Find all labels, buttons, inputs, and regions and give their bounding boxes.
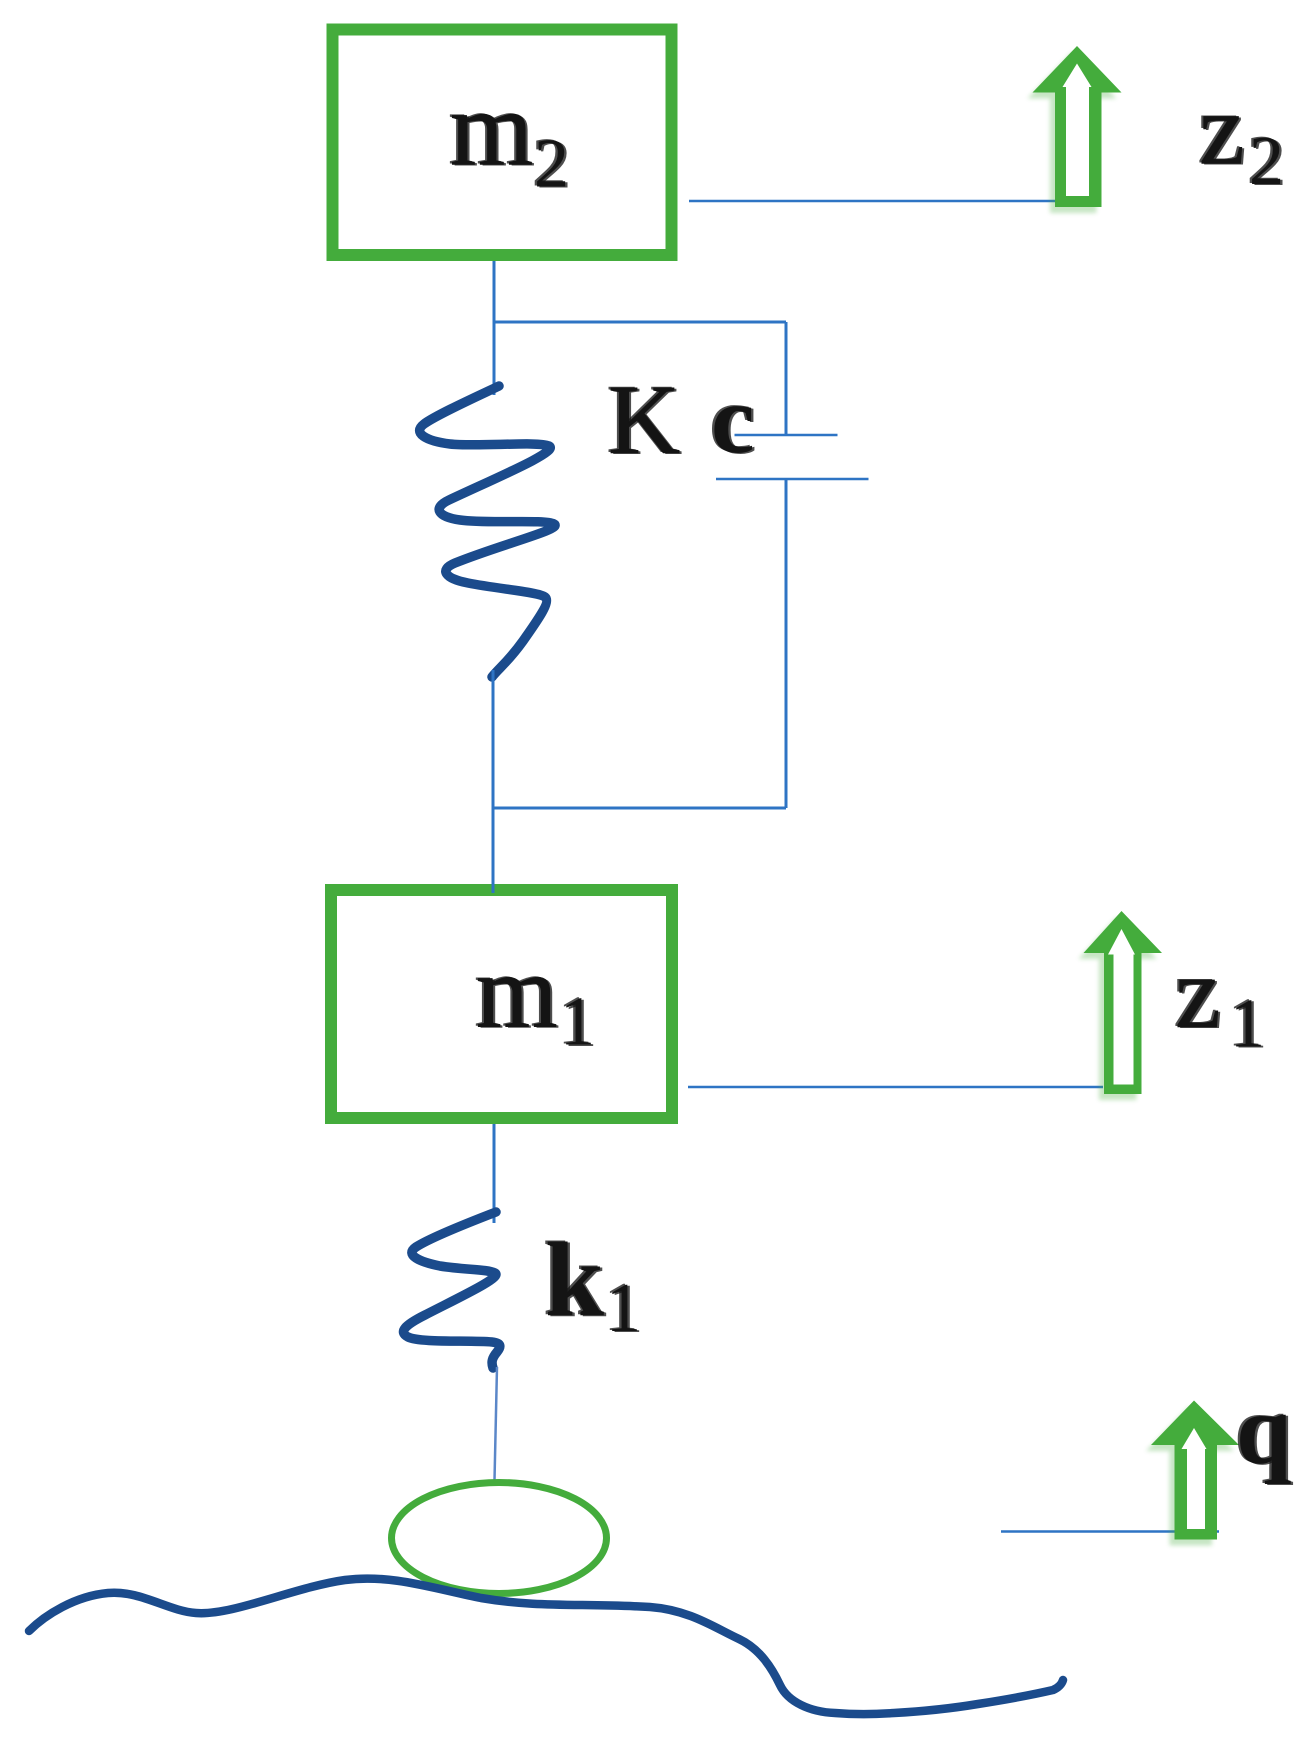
svg-text:2: 2 [1249,123,1284,200]
svg-text:m: m [450,71,533,189]
arrow q [1146,1401,1239,1546]
wheel ellipse [392,1483,607,1594]
wire m1 bottom down [493,1124,496,1223]
wire spring k1 to wheel [495,1367,498,1480]
label k1 [543,1220,607,1339]
arrow z2 [1028,46,1122,213]
svg-text:q: q [1236,1374,1292,1485]
svg-text:z: z [1199,73,1245,187]
label c [709,365,757,475]
svg-text:2: 2 [534,126,569,203]
svg-text:k: k [545,1221,604,1338]
svg-text:1: 1 [606,1270,641,1347]
label q [1234,1373,1294,1486]
label K [606,363,683,476]
label m2 [448,70,536,190]
svg-text:K: K [608,364,680,475]
wire q baseline [1001,1530,1219,1533]
svg-text:1: 1 [560,984,595,1061]
wire bottom connector [494,807,786,810]
wire m2 bottom down [493,261,496,395]
svg-text:m: m [476,933,558,1050]
wire spring K bottom to m1 [492,670,495,893]
arrow z1 [1079,911,1163,1100]
road surface [29,1579,1063,1715]
svg-text:z: z [1175,936,1221,1050]
label z1 [1173,935,1224,1051]
label z2 [1197,72,1248,188]
mass m2 box [333,30,672,256]
wire m1 to z1 [688,1086,1103,1089]
damper plate top [735,434,838,437]
spring K [420,386,555,677]
damper plate bottom [716,478,869,481]
spring k1 [403,1212,499,1368]
wire m2 to z2 [689,200,1057,203]
wire junction top horizontal [494,321,786,324]
svg-text:c: c [711,366,755,474]
label m1 [474,932,560,1051]
svg-text:1: 1 [1230,986,1265,1063]
wire damper bottom drop [785,479,788,808]
mass m1 box [331,890,672,1118]
wire damper top drop [785,322,788,435]
